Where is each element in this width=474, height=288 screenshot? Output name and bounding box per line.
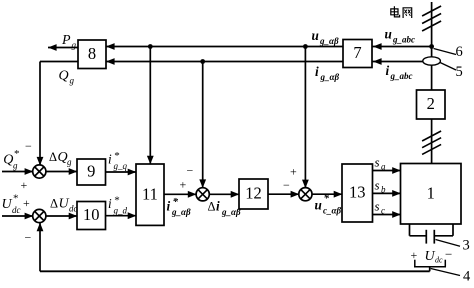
svg-text:g_abc: g_abc	[390, 71, 413, 81]
svg-text:g_αβ: g_αβ	[171, 207, 191, 217]
svg-text:c: c	[381, 206, 385, 216]
svg-text:s: s	[375, 178, 380, 193]
svg-text:dc: dc	[435, 256, 443, 265]
svg-text:c_αβ: c_αβ	[323, 206, 341, 216]
svg-text:+: +	[21, 178, 28, 192]
svg-text:U: U	[2, 197, 13, 212]
svg-text:g_q: g_q	[114, 161, 128, 171]
svg-text:U: U	[59, 197, 70, 212]
svg-text:i: i	[108, 196, 112, 211]
svg-text:*: *	[324, 193, 330, 205]
svg-text:11: 11	[142, 184, 158, 203]
svg-text:g: g	[72, 40, 77, 50]
svg-text:U: U	[425, 249, 436, 264]
svg-text:b: b	[381, 185, 386, 195]
svg-text:s: s	[375, 199, 380, 214]
svg-text:g_d: g_d	[114, 205, 128, 215]
svg-text:g: g	[13, 161, 18, 171]
svg-text:8: 8	[88, 44, 96, 63]
svg-text:u: u	[315, 198, 322, 213]
svg-text:g_abc: g_abc	[392, 35, 415, 45]
svg-text:*: *	[14, 148, 20, 160]
svg-text:−: −	[25, 231, 32, 245]
svg-text:g_αβ: g_αβ	[221, 207, 241, 217]
svg-text:*: *	[13, 193, 19, 205]
svg-text:9: 9	[87, 162, 95, 181]
svg-text:+: +	[411, 248, 418, 262]
svg-text:i: i	[386, 63, 390, 78]
svg-text:a: a	[381, 162, 386, 172]
svg-text:g_αβ: g_αβ	[319, 36, 339, 46]
svg-text:13: 13	[349, 183, 366, 202]
svg-text:g_αβ: g_αβ	[320, 72, 340, 82]
svg-text:3: 3	[463, 238, 470, 254]
svg-text:+: +	[290, 165, 297, 179]
svg-text:i: i	[216, 199, 220, 214]
svg-text:2: 2	[427, 94, 435, 113]
svg-text:P: P	[61, 33, 71, 48]
svg-text:g: g	[70, 76, 75, 86]
svg-text:i: i	[167, 199, 171, 214]
svg-text:10: 10	[83, 205, 100, 224]
svg-text:Q: Q	[59, 69, 69, 84]
svg-text:7: 7	[353, 43, 361, 62]
svg-text:−: −	[283, 178, 290, 192]
svg-text:1: 1	[427, 183, 435, 202]
svg-text:Δ: Δ	[49, 150, 57, 164]
svg-text:i: i	[108, 152, 112, 167]
svg-text:s: s	[375, 155, 380, 170]
svg-text:Δ: Δ	[50, 197, 58, 211]
svg-text:12: 12	[245, 184, 262, 203]
svg-text:−: −	[25, 139, 32, 153]
svg-text:6: 6	[456, 44, 463, 60]
svg-text:−: −	[445, 247, 452, 262]
svg-text:+: +	[23, 196, 30, 210]
svg-text:Δ: Δ	[208, 200, 216, 214]
svg-text:5: 5	[456, 64, 463, 80]
svg-text:dc: dc	[12, 205, 21, 215]
svg-text:i: i	[315, 64, 319, 79]
svg-text:−: −	[187, 164, 194, 178]
svg-text:dc: dc	[69, 204, 78, 214]
svg-text:Q: Q	[3, 153, 13, 168]
svg-text:+: +	[180, 178, 187, 192]
svg-text:u: u	[385, 27, 392, 42]
svg-text:g: g	[67, 157, 72, 167]
svg-text:u: u	[312, 28, 319, 43]
svg-text:4: 4	[463, 269, 471, 284]
